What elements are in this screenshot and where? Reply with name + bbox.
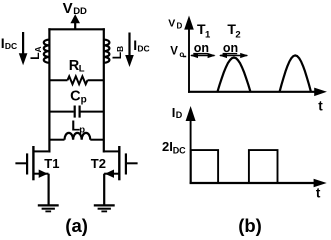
ground T1 <box>38 205 59 211</box>
svg-text:(b): (b) <box>238 215 262 236</box>
current arrow IDC right <box>125 33 134 68</box>
label t (top axis) <box>318 99 323 114</box>
svg-text:on: on <box>194 41 209 55</box>
svg-text:L: L <box>79 64 85 75</box>
svg-text:2I: 2I <box>162 139 173 154</box>
label T1 (graph) <box>197 21 211 40</box>
label IDC left <box>1 35 17 51</box>
svg-text:DC: DC <box>173 146 186 156</box>
transistor T2 gate lead wire <box>127 162 138 164</box>
graph VD x-axis <box>188 88 327 97</box>
svg-text:D: D <box>176 110 183 120</box>
label 2IDC <box>162 139 186 156</box>
transistor T1 gate bar <box>26 153 28 174</box>
graph ID x-axis <box>190 179 327 188</box>
label VD <box>168 18 182 31</box>
transistor T1 channel bar <box>32 146 34 180</box>
graph ID y-axis <box>186 106 196 184</box>
svg-text:V: V <box>168 18 175 30</box>
inductor LA coil <box>44 40 50 63</box>
svg-text:C: C <box>70 88 81 104</box>
label on (T2) underlined <box>223 41 239 55</box>
ground T2 <box>94 205 115 211</box>
label t (bottom axis) <box>316 186 321 201</box>
wire T1 source to ground <box>47 174 49 205</box>
transistor T2 channel bar <box>118 146 120 180</box>
tick Vo level <box>183 56 186 58</box>
label T1 <box>44 156 59 171</box>
waveform ID pulse 1 <box>191 150 218 182</box>
inductor LP coil <box>65 133 91 140</box>
svg-text:V: V <box>63 0 73 17</box>
transistor T1 drain stub <box>33 150 48 152</box>
svg-text:DD: DD <box>73 6 87 17</box>
svg-text:on: on <box>223 41 238 55</box>
wire resistor row <box>49 79 103 81</box>
current arrow IDC left <box>19 32 28 65</box>
wire T2 source to ground <box>103 174 105 205</box>
svg-text:T2: T2 <box>91 156 106 171</box>
label ID <box>172 105 183 120</box>
label VDD <box>63 0 87 17</box>
inductor LB coil <box>104 40 110 63</box>
graph VD y-axis <box>184 16 194 93</box>
label on (T1) underlined <box>193 41 209 55</box>
wire LP row <box>49 139 103 141</box>
label (a) <box>65 215 88 236</box>
label LA (rotated) <box>28 46 43 59</box>
label T2 (graph) <box>227 21 240 40</box>
label LB (rotated) <box>110 46 125 59</box>
wire left tank vertical <box>48 28 50 152</box>
label T2 <box>91 156 106 171</box>
svg-text:o: o <box>179 50 184 59</box>
svg-text:(a): (a) <box>65 215 88 236</box>
double arrow T2 on interval <box>219 53 248 58</box>
transistor T1 source stub with arrow <box>33 170 48 178</box>
transistor T2 drain stub <box>104 150 119 152</box>
svg-text:p: p <box>79 125 85 136</box>
svg-text:DC: DC <box>137 44 149 54</box>
svg-text:p: p <box>81 94 87 105</box>
waveform VD sine pulse 2 <box>280 55 311 91</box>
wire top rail VDD <box>48 28 104 30</box>
svg-text:2: 2 <box>235 30 240 41</box>
label Vo <box>170 46 184 60</box>
svg-text:1: 1 <box>205 30 211 41</box>
svg-text:T1: T1 <box>44 156 59 171</box>
transistor T2 source stub with arrow <box>104 170 119 178</box>
resistor RL zigzag <box>68 76 88 84</box>
label IDC right <box>133 37 149 53</box>
svg-text:D: D <box>177 22 183 31</box>
power VDD arrow <box>70 14 80 29</box>
svg-text:V: V <box>170 46 178 58</box>
label CP <box>70 88 87 105</box>
label RL <box>69 58 85 75</box>
transistor T1 gate lead wire <box>15 162 26 164</box>
svg-text:t: t <box>318 99 323 114</box>
transistor T2 gate bar <box>125 153 127 174</box>
waveform ID pulse 2 <box>249 150 278 182</box>
svg-text:t: t <box>316 186 321 201</box>
label LP <box>71 119 85 136</box>
capacitor CP plates <box>75 106 80 118</box>
label (b) <box>238 215 262 236</box>
wire capacitor row <box>49 111 103 113</box>
svg-text:DC: DC <box>5 41 17 51</box>
double arrow T1 on interval <box>190 53 216 58</box>
wire right tank vertical <box>103 28 105 152</box>
waveform VD sine pulse 1 <box>218 58 251 92</box>
